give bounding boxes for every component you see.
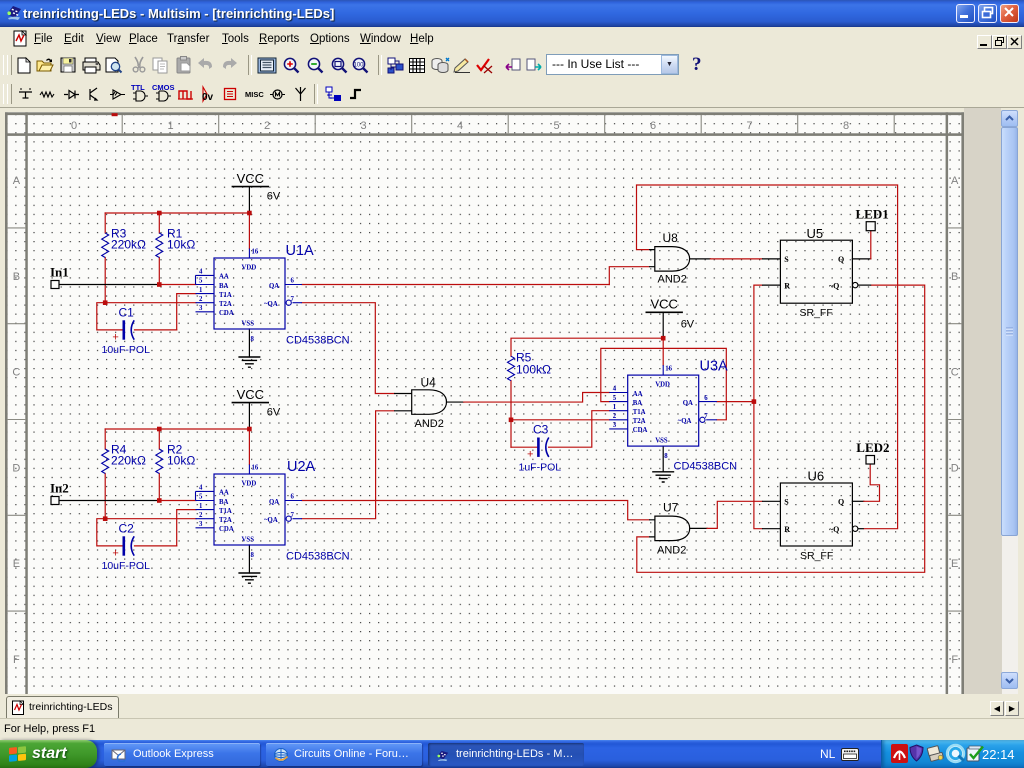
svg-text:CDA: CDA: [219, 526, 234, 533]
svg-text:8: 8: [843, 120, 849, 132]
grid dots: [8, 115, 962, 696]
svg-text:4: 4: [199, 485, 203, 492]
svg-text:VCC: VCC: [650, 297, 677, 312]
svg-text:5: 5: [199, 494, 203, 501]
svg-text:10uF-POL: 10uF-POL: [102, 344, 151, 356]
AND gate U8: [649, 231, 690, 286]
wire VCC2 stem: [248, 403, 250, 429]
svg-text:B: B: [13, 271, 20, 283]
resistor R2: [156, 449, 163, 474]
wire R1 bottom lead: [158, 258, 160, 285]
wire R3 top lead: [104, 213, 106, 233]
svg-text:10kΩ: 10kΩ: [167, 238, 195, 252]
svg-text:BA: BA: [219, 499, 229, 506]
svg-text:16: 16: [665, 366, 672, 373]
svg-text:MISC: MISC: [245, 90, 264, 99]
menu bar: [0, 27, 1024, 51]
wire C2 left loop: [97, 519, 123, 546]
junction R4 bottom / C2 / T2A: [103, 516, 108, 521]
wire R4 top lead: [104, 429, 106, 449]
svg-text:AA: AA: [219, 490, 229, 497]
junction R2 bottom on In2 wire: [157, 498, 162, 503]
svg-text:CD4538BCN: CD4538BCN: [286, 551, 350, 563]
svg-text:6: 6: [291, 494, 295, 501]
svg-text:5: 5: [553, 120, 559, 132]
wire VCC3 junction to R5 top: [511, 338, 663, 356]
svg-text:D: D: [951, 462, 959, 474]
svg-text:6: 6: [291, 278, 295, 285]
svg-text:CDA: CDA: [219, 310, 234, 317]
svg-text:C2: C2: [119, 522, 135, 536]
svg-text:U1A: U1A: [286, 243, 315, 259]
svg-text:1uF-POL: 1uF-POL: [519, 462, 562, 474]
power VCC1: [232, 171, 281, 203]
svg-text:7: 7: [291, 296, 295, 303]
schematic capture area: [0, 108, 1024, 696]
junction VCC2 stem: [247, 427, 252, 432]
wire U1A ~QA to U4 input A: [302, 303, 394, 394]
Windows taskbar: [0, 740, 1024, 768]
svg-text:7: 7: [291, 512, 295, 519]
wire U7 output to U6 S: [707, 501, 762, 528]
svg-text:VSS: VSS: [242, 536, 255, 543]
svg-text:C: C: [951, 367, 959, 379]
svg-text:5: 5: [613, 395, 617, 402]
wire U3A pin8 to ground: [662, 446, 664, 472]
svg-text:0: 0: [71, 120, 77, 132]
svg-text:F: F: [951, 654, 958, 666]
tray icon: update check: [966, 744, 985, 763]
AND gate U7: [649, 501, 690, 557]
toolbar row 1: [0, 51, 1024, 80]
svg-text:6V: 6V: [681, 319, 695, 331]
svg-text:VSS: VSS: [242, 320, 255, 327]
tray icon: antivirus: [891, 744, 908, 763]
svg-text:3: 3: [199, 305, 203, 312]
svg-text:7: 7: [704, 413, 708, 420]
ruler tick marks left and right: [8, 228, 962, 611]
svg-text:BA: BA: [633, 400, 643, 407]
IC U2A CD4538BCN monostable: [196, 459, 350, 563]
junction R4/R2/VCC2 rail left: [157, 427, 162, 432]
wire C2 right to U2A T1A: [177, 510, 196, 546]
junction VCC3 / R5 wire / U3A pin16: [661, 336, 666, 341]
wire junction to U2A T2A: [105, 518, 196, 520]
svg-text:A: A: [13, 175, 21, 187]
svg-text:16: 16: [252, 249, 259, 256]
wire C2 right plate to corner: [135, 545, 177, 547]
power VCC2: [232, 387, 281, 419]
svg-text:S: S: [784, 498, 789, 507]
capacitor C1: [124, 320, 134, 339]
resistor R4: [102, 449, 109, 474]
wire U7 output stub: [690, 527, 707, 529]
svg-text:U7: U7: [663, 501, 679, 515]
svg-text:1: 1: [199, 503, 203, 510]
svg-text:1: 1: [199, 287, 203, 294]
svg-text:SR_FF: SR_FF: [800, 550, 833, 562]
svg-text:U4: U4: [421, 376, 437, 390]
svg-text:CD4538BCN: CD4538BCN: [286, 335, 350, 347]
AND gate U4: [394, 376, 447, 431]
svg-text:LED1: LED1: [856, 207, 889, 222]
wire U4 output stub: [447, 401, 464, 403]
svg-text:AND2: AND2: [415, 418, 444, 430]
IC U3A CD4538BCN monostable: [609, 359, 737, 473]
vertical scrollbar: [1001, 110, 1018, 127]
wire U3A ~QA feedback to BA: [601, 348, 727, 419]
ground under U2A: [238, 573, 260, 583]
wire U4 output to U3A AA: [464, 393, 610, 403]
resistor R3: [102, 233, 109, 258]
svg-text:3: 3: [199, 521, 203, 528]
wire U2A ~QA to U4 input B: [302, 411, 394, 519]
svg-text:A: A: [951, 175, 959, 187]
svg-text:VDD: VDD: [242, 264, 257, 271]
junction R3/R1/VCC1 rail left: [157, 211, 162, 216]
svg-text:U6: U6: [808, 469, 825, 484]
svg-text:3: 3: [613, 422, 617, 429]
wire C3 right plate to U3A T1A: [549, 411, 610, 448]
wire In2 to junction: [59, 500, 159, 502]
svg-text:~QA: ~QA: [264, 517, 278, 524]
svg-text:8: 8: [664, 453, 668, 460]
svg-text:C: C: [12, 367, 20, 379]
resistor R1: [156, 233, 163, 258]
wire U5 ~Q to U7 input B: [637, 285, 925, 572]
svg-text:VSS: VSS: [655, 437, 668, 444]
ground under U1A: [238, 357, 260, 367]
window title bar: [0, 0, 1024, 27]
svg-text:In2: In2: [50, 481, 69, 496]
svg-text:16: 16: [252, 465, 259, 472]
svg-text:T2A: T2A: [219, 301, 232, 308]
svg-text:Q: Q: [838, 498, 844, 507]
wire junction to U1A BA: [159, 284, 196, 286]
ground under U3A: [652, 472, 674, 482]
wire U1A QA step up to U8 input B: [609, 267, 649, 285]
wire C1 left loop: [97, 303, 123, 330]
svg-text:7: 7: [746, 120, 752, 132]
wire R2 bottom lead: [158, 474, 160, 501]
wire R5 bottom lead through junction to C3: [510, 381, 512, 448]
svg-text:D: D: [12, 462, 20, 474]
wire R1 top lead: [158, 213, 160, 233]
wire C3 left plate feed: [511, 446, 537, 448]
svg-text:6V: 6V: [267, 191, 281, 203]
wire junction to U3A T2A: [511, 419, 609, 421]
wire VCC3 junction to U3A pin16: [662, 338, 664, 365]
svg-text:10kΩ: 10kΩ: [167, 454, 195, 468]
svg-text:~Q: ~Q: [829, 281, 839, 290]
svg-text:2: 2: [613, 413, 617, 420]
svg-text:T1A: T1A: [633, 409, 646, 416]
svg-text:VDD: VDD: [242, 480, 257, 487]
task button: Outlook Express: [104, 743, 260, 766]
svg-text:T1A: T1A: [219, 292, 232, 299]
svg-text:100: 100: [354, 63, 365, 69]
svg-text:F: F: [13, 654, 20, 666]
tray icon: printer: [926, 744, 945, 763]
svg-text:4: 4: [613, 386, 617, 393]
svg-text:6V: 6V: [267, 407, 281, 419]
resistor R5: [508, 356, 515, 381]
svg-text:2: 2: [264, 120, 270, 132]
output terminal LED1: [856, 207, 889, 231]
svg-text:VCC: VCC: [237, 171, 264, 186]
ruler tick marks top: [122, 115, 894, 133]
svg-text:0v: 0v: [202, 92, 214, 103]
wire U3A QA to junction: [717, 401, 754, 403]
wire VCC1 stem: [248, 187, 250, 213]
svg-text:2: 2: [199, 296, 203, 303]
svg-text:~QA: ~QA: [678, 418, 692, 425]
ruler numbers: [71, 120, 849, 132]
junction R5 bottom / C3 / T2A wire: [509, 418, 514, 423]
svg-text:Q: Q: [838, 255, 844, 264]
wire C1 right to U1A T1A: [177, 294, 196, 330]
svg-text:C1: C1: [119, 306, 135, 320]
svg-text:CDA: CDA: [633, 427, 648, 434]
svg-text:220kΩ: 220kΩ: [111, 238, 146, 252]
capacitor C2: [124, 536, 134, 555]
wire U6 Q to LED2: [852, 500, 863, 502]
junction R3 bottom / C1 / T2A: [103, 300, 108, 305]
svg-text:In1: In1: [50, 265, 69, 280]
svg-text:+: +: [112, 332, 118, 344]
ruler letters left: [12, 175, 20, 666]
svg-text:LED2: LED2: [856, 440, 889, 455]
wire U2A pin8 to ground: [248, 545, 250, 573]
wire U5 Q to LED1: [852, 258, 870, 260]
svg-text:AA: AA: [633, 391, 643, 398]
svg-text:E: E: [951, 558, 958, 570]
wire U1A pin8 to ground: [248, 329, 250, 357]
wire U8 output to U5 S: [690, 258, 711, 260]
svg-text:4: 4: [199, 269, 203, 276]
tray icon: shield: [909, 744, 924, 762]
wire junction to U2A BA: [159, 500, 196, 502]
wire U6 ~Q top loop to U8 input A: [637, 185, 898, 529]
svg-text:R: R: [784, 281, 790, 290]
svg-text:VDD: VDD: [655, 381, 670, 388]
svg-text:~QA: ~QA: [264, 301, 278, 308]
svg-text:QA: QA: [269, 283, 279, 290]
svg-text:E: E: [13, 558, 20, 570]
svg-text:VCC: VCC: [237, 387, 264, 402]
wire VCC2 rail: [105, 428, 249, 430]
svg-text:T2A: T2A: [219, 517, 232, 524]
keyboard layout icon: [841, 748, 859, 761]
svg-text:+: +: [112, 548, 118, 560]
status bar: [0, 718, 1024, 741]
wire R4 bottom lead: [104, 474, 106, 519]
svg-text:5: 5: [199, 278, 203, 285]
svg-text:T2A: T2A: [633, 418, 646, 425]
junction R1 bottom on In1 wire: [157, 282, 162, 287]
flip-flop U6 (SR_FF): [762, 469, 864, 563]
svg-text:T1A: T1A: [219, 508, 232, 515]
svg-text:AA: AA: [219, 274, 229, 281]
svg-text:AND2: AND2: [658, 274, 687, 286]
task button: Circuits Online forum: [266, 743, 422, 766]
input terminal In1: [50, 265, 69, 289]
red cursor position tick on top ruler: [112, 113, 118, 116]
svg-text:U2A: U2A: [287, 459, 316, 475]
output terminal LED2: [856, 440, 889, 464]
svg-text:+: +: [527, 449, 533, 461]
tray icon: QuickTime: [945, 743, 966, 764]
svg-text:R: R: [784, 525, 790, 534]
wire VCC1 rail: [105, 212, 249, 214]
wire C1 right plate to corner: [135, 329, 177, 331]
task button: treinrichting-LEDs (active): [428, 743, 584, 766]
svg-text:AND2: AND2: [657, 545, 686, 557]
svg-text:6: 6: [704, 395, 708, 402]
sheet tab row: [0, 694, 1024, 718]
input terminal In2: [50, 481, 69, 505]
sheet white background: [5, 112, 964, 696]
svg-text:QA: QA: [683, 400, 693, 407]
svg-text:8: 8: [251, 336, 255, 343]
junction VCC1 stem: [247, 211, 252, 216]
wire VCC3 stem: [662, 312, 664, 338]
wire U1A QA output: [302, 284, 609, 286]
junction U3A QA to U5 R and U6 R: [752, 399, 757, 404]
svg-text:2: 2: [199, 512, 203, 519]
svg-text:BA: BA: [219, 283, 229, 290]
IC U1A CD4538BCN monostable: [196, 243, 350, 347]
wire U2A QA to U7 input A: [302, 501, 649, 520]
wire QA junction up to U5 R and down to U6 R: [754, 285, 762, 529]
Multisim app icon: [5, 4, 23, 22]
wire VCC1 to U1A pin16: [248, 213, 250, 249]
svg-text:220kΩ: 220kΩ: [111, 454, 146, 468]
svg-text:100kΩ: 100kΩ: [516, 363, 551, 377]
svg-text:1: 1: [613, 404, 617, 411]
svg-text:B: B: [951, 271, 958, 283]
canvas outside sheet: [964, 108, 1001, 696]
svg-text:C3: C3: [533, 423, 549, 437]
svg-text:1: 1: [167, 120, 173, 132]
svg-text:4: 4: [457, 120, 463, 132]
svg-text:3: 3: [360, 120, 366, 132]
svg-text:S: S: [784, 255, 789, 264]
svg-text:U3A: U3A: [700, 359, 729, 375]
svg-text:6: 6: [650, 120, 656, 132]
wire junction to U1A T2A: [105, 302, 196, 304]
svg-text:U8: U8: [663, 231, 679, 245]
flip-flop U5 (SR_FF): [762, 226, 871, 319]
toolbar row 2 : component palette: [0, 80, 1024, 108]
ruler letters right: [951, 175, 959, 666]
svg-text:10uF-POL: 10uF-POL: [102, 560, 151, 572]
power VCC3: [646, 297, 695, 331]
svg-text:QA: QA: [269, 499, 279, 506]
wire R2 top lead: [158, 429, 160, 449]
svg-text:U5: U5: [807, 226, 824, 241]
sheet frame lines: [5, 112, 964, 696]
svg-text:SR_FF: SR_FF: [800, 307, 833, 319]
wire R3 bottom lead: [104, 258, 106, 303]
capacitor C3: [538, 438, 548, 457]
svg-text:8: 8: [251, 552, 255, 559]
wire VCC2 to U2A pin16: [248, 429, 250, 465]
svg-text:~Q: ~Q: [829, 525, 839, 534]
wire In1 to junction: [59, 284, 159, 286]
svg-text:CD4538BCN: CD4538BCN: [674, 461, 738, 473]
